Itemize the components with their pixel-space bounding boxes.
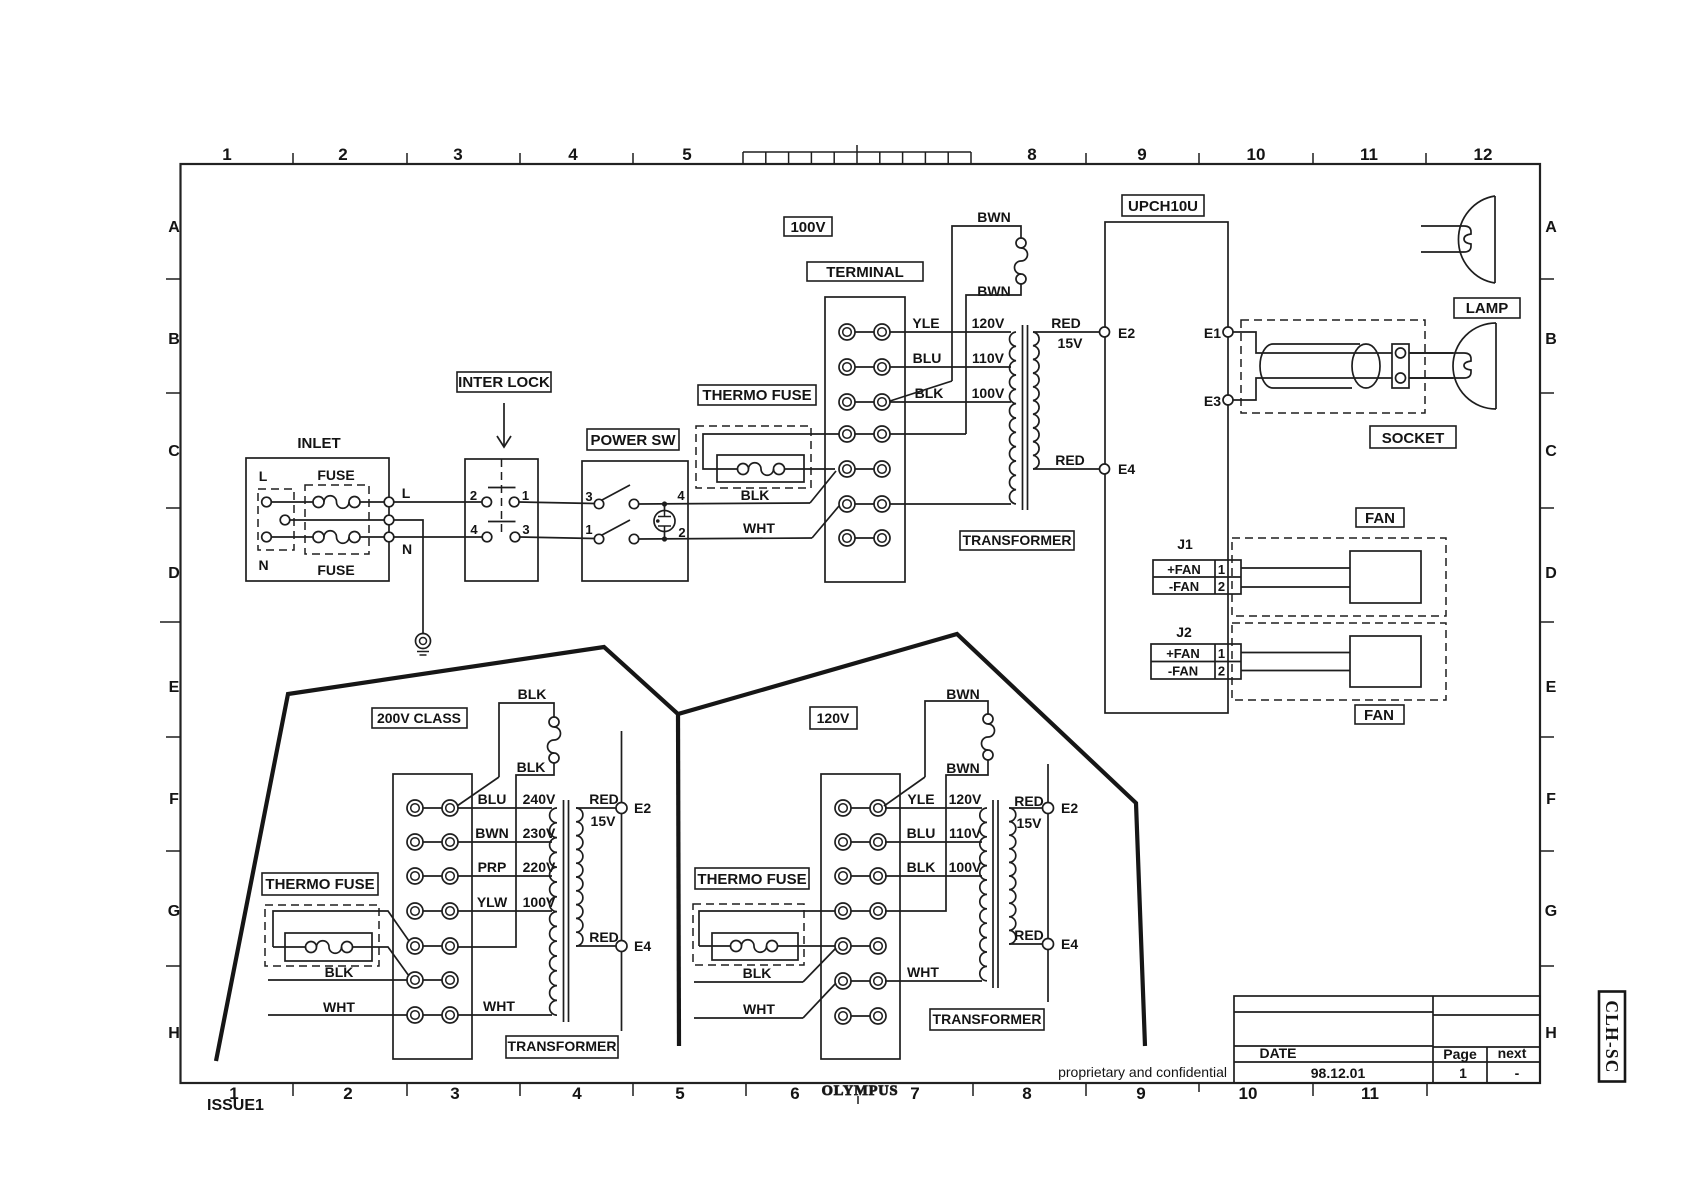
svg-text:120V: 120V [972,315,1005,331]
svg-text:WHT: WHT [483,998,515,1014]
svg-text:E4: E4 [1118,461,1135,477]
svg-text:YLE: YLE [907,791,934,807]
svg-text:L: L [402,485,411,501]
svg-text:DATE: DATE [1259,1045,1296,1061]
svg-text:D: D [1545,565,1557,582]
svg-text:4: 4 [470,522,478,537]
svg-text:A: A [168,219,180,236]
svg-text:10: 10 [1239,1084,1258,1103]
svg-text:RED: RED [1014,793,1044,809]
svg-text:BLK: BLK [325,964,354,980]
svg-text:BWN: BWN [946,686,979,702]
svg-text:A: A [1545,219,1557,236]
svg-text:N: N [258,557,268,573]
svg-text:H: H [168,1025,180,1042]
svg-text:FAN: FAN [1364,707,1394,724]
svg-text:TERMINAL: TERMINAL [826,264,904,281]
svg-text:F: F [1546,791,1556,808]
svg-text:BLK: BLK [517,759,546,775]
svg-text:3: 3 [453,145,462,164]
svg-text:110V: 110V [972,350,1005,366]
svg-text:5: 5 [682,145,691,164]
svg-text:E4: E4 [634,938,651,954]
svg-text:INTER LOCK: INTER LOCK [458,374,550,391]
svg-text:15V: 15V [1017,815,1043,831]
svg-text:H: H [1545,1025,1557,1042]
svg-text:1: 1 [585,522,592,537]
svg-text:+FAN: +FAN [1167,562,1201,577]
svg-text:+FAN: +FAN [1166,646,1200,661]
svg-text:THERMO FUSE: THERMO FUSE [265,876,374,893]
svg-text:E2: E2 [634,800,651,816]
svg-text:E3: E3 [1204,393,1221,409]
svg-text:1: 1 [1459,1065,1467,1081]
svg-text:1: 1 [1218,562,1225,577]
svg-text:120V: 120V [949,791,982,807]
svg-text:E: E [169,679,180,696]
svg-text:Page: Page [1443,1046,1477,1062]
svg-text:YLE: YLE [912,315,939,331]
svg-text:11: 11 [1360,145,1378,164]
svg-text:E1: E1 [1204,325,1221,341]
svg-text:TRANSFORMER: TRANSFORMER [933,1011,1042,1027]
svg-text:B: B [1545,331,1557,348]
svg-text:220V: 220V [523,859,556,875]
svg-text:E2: E2 [1118,325,1135,341]
svg-text:3: 3 [522,522,529,537]
svg-text:BLU: BLU [907,825,936,841]
svg-text:BLK: BLK [743,965,772,981]
svg-text:100V: 100V [972,385,1005,401]
svg-text:2: 2 [338,145,347,164]
svg-text:OLYMPUS: OLYMPUS [822,1083,899,1099]
svg-text:3: 3 [450,1084,459,1103]
svg-text:L: L [259,468,268,484]
svg-text:11: 11 [1361,1084,1379,1103]
svg-text:BLK: BLK [915,385,944,401]
svg-text:1: 1 [1218,646,1225,661]
svg-text:1: 1 [222,145,231,164]
svg-text:BLK: BLK [518,686,547,702]
svg-text:BWN: BWN [977,283,1010,299]
svg-text:RED: RED [589,929,619,945]
svg-text:WHT: WHT [743,1001,775,1017]
svg-text:BWN: BWN [946,760,979,776]
svg-text:100V: 100V [790,219,825,236]
svg-text:BLK: BLK [907,859,936,875]
svg-text:10: 10 [1247,145,1266,164]
svg-text:D: D [168,565,180,582]
svg-text:2: 2 [1218,664,1225,679]
svg-text:-FAN: -FAN [1168,664,1198,679]
svg-text:BLK: BLK [741,487,770,503]
svg-text:TRANSFORMER: TRANSFORMER [508,1038,617,1054]
svg-text:J2: J2 [1176,624,1192,640]
svg-text:110V: 110V [949,825,982,841]
svg-text:RED: RED [589,791,619,807]
svg-text:2: 2 [678,525,685,540]
svg-text:proprietary and confidential: proprietary and confidential [1058,1064,1227,1080]
svg-text:8: 8 [1027,145,1036,164]
svg-text:F: F [169,791,179,808]
svg-text:100V: 100V [949,859,982,875]
svg-text:TRANSFORMER: TRANSFORMER [963,532,1072,548]
svg-text:CLH-SC: CLH-SC [1602,1000,1622,1073]
svg-text:E4: E4 [1061,936,1078,952]
svg-text:next: next [1498,1045,1527,1061]
svg-text:98.12.01: 98.12.01 [1311,1065,1366,1081]
svg-text:-: - [1515,1065,1520,1081]
svg-text:C: C [168,443,180,460]
svg-text:7: 7 [910,1084,919,1103]
svg-text:G: G [1545,903,1557,920]
svg-text:WHT: WHT [323,999,355,1015]
svg-text:E: E [1546,679,1557,696]
svg-text:UPCH10U: UPCH10U [1128,198,1198,215]
svg-text:2: 2 [1218,579,1225,594]
svg-text:WHT: WHT [907,964,939,980]
svg-text:4: 4 [677,488,685,503]
svg-text:240V: 240V [523,791,556,807]
svg-text:YLW: YLW [477,894,508,910]
svg-text:12: 12 [1474,145,1493,164]
svg-text:RED: RED [1014,927,1044,943]
svg-text:6: 6 [790,1084,799,1103]
svg-text:9: 9 [1136,1084,1145,1103]
svg-text:BWN: BWN [475,825,508,841]
svg-text:G: G [168,903,180,920]
svg-text:POWER SW: POWER SW [591,432,677,449]
svg-text:2: 2 [470,488,477,503]
svg-text:9: 9 [1137,145,1146,164]
svg-text:B: B [168,331,180,348]
svg-text:4: 4 [568,145,578,164]
svg-text:BLU: BLU [913,350,942,366]
svg-text:E2: E2 [1061,800,1078,816]
svg-text:SOCKET: SOCKET [1382,430,1445,447]
svg-text:3: 3 [585,489,592,504]
svg-text:INLET: INLET [297,435,340,452]
svg-text:15V: 15V [1058,335,1084,351]
svg-text:N: N [402,541,412,557]
svg-text:WHT: WHT [743,520,775,536]
svg-text:1: 1 [522,488,529,503]
svg-text:15V: 15V [591,813,617,829]
svg-text:RED: RED [1051,315,1081,331]
svg-text:FUSE: FUSE [317,467,354,483]
svg-text:THERMO FUSE: THERMO FUSE [697,871,806,888]
svg-text:RED: RED [1055,452,1085,468]
svg-text:-FAN: -FAN [1169,579,1199,594]
svg-text:BWN: BWN [977,209,1010,225]
svg-text:5: 5 [675,1084,684,1103]
svg-text:FUSE: FUSE [317,562,354,578]
svg-text:J1: J1 [1177,536,1193,552]
svg-text:ISSUE1: ISSUE1 [207,1097,264,1114]
svg-text:FAN: FAN [1365,510,1395,527]
svg-text:200V CLASS: 200V CLASS [377,710,461,726]
svg-text:2: 2 [343,1084,352,1103]
svg-text:120V: 120V [817,710,850,726]
svg-text:LAMP: LAMP [1466,300,1509,317]
svg-text:BLU: BLU [478,791,507,807]
svg-text:C: C [1545,443,1557,460]
svg-text:THERMO FUSE: THERMO FUSE [702,387,811,404]
svg-text:8: 8 [1022,1084,1031,1103]
svg-text:PRP: PRP [478,859,507,875]
svg-text:4: 4 [572,1084,582,1103]
